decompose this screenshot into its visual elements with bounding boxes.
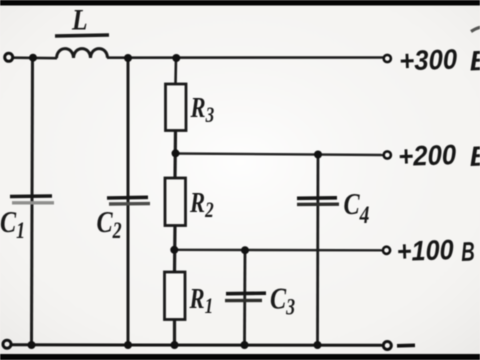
junction bottom C1 bbox=[28, 341, 36, 349]
terminal +300 bbox=[384, 55, 391, 62]
wire C3 branch vertical bbox=[243, 250, 246, 345]
resistor R3 bbox=[166, 84, 187, 131]
minus dash bbox=[397, 343, 415, 347]
terminal input left top bbox=[5, 53, 13, 61]
resistor R1 bbox=[165, 272, 186, 320]
junction +200 R chain bbox=[172, 149, 180, 157]
capacitor C4 bbox=[297, 196, 337, 200]
capacitor C1 bbox=[10, 194, 52, 198]
wire +100 rail bbox=[174, 249, 383, 252]
wire C2 branch vertical bbox=[127, 58, 130, 345]
junction bottom C2 bbox=[124, 341, 132, 349]
svg-text:В: В bbox=[469, 140, 480, 172]
wire resistor chain vertical bbox=[174, 58, 177, 84]
terminal +200 bbox=[384, 151, 391, 158]
svg-text:В: В bbox=[461, 237, 476, 267]
bottom letterbox bar bbox=[0, 354, 480, 360]
wire C4 branch vertical bbox=[316, 155, 319, 346]
junction top C1 bbox=[29, 54, 37, 62]
junction top R chain bbox=[172, 54, 180, 62]
wire bottom ground rail bbox=[11, 343, 382, 347]
wire top rail bbox=[13, 56, 57, 59]
svg-text:В: В bbox=[469, 45, 480, 77]
wire C1 branch vertical bbox=[32, 58, 33, 345]
junction bottom C3 bbox=[241, 341, 249, 349]
junction bottom C4 bbox=[314, 341, 322, 349]
svg-text:+200: +200 bbox=[398, 139, 457, 172]
svg-text:L: L bbox=[71, 4, 87, 37]
junction bottom R chain bbox=[171, 341, 179, 349]
terminal +100 bbox=[383, 247, 390, 254]
terminal minus bottom right bbox=[383, 342, 391, 350]
terminal left bottom bbox=[3, 340, 11, 348]
top letterbox bar bbox=[0, 0, 480, 6]
svg-text:+300: +300 bbox=[399, 43, 458, 76]
svg-text:+100: +100 bbox=[396, 234, 454, 267]
junction +100 C3 bbox=[241, 246, 249, 254]
inductor L bbox=[57, 49, 108, 59]
stray pen arc top right bbox=[471, 27, 480, 32]
wire +200 rail bbox=[175, 154, 383, 156]
junction +200 C4 bbox=[314, 151, 322, 159]
junction top C2 bbox=[124, 54, 132, 62]
junction +100 R chain bbox=[170, 246, 178, 254]
resistor R2 bbox=[165, 178, 186, 226]
capacitor C2 bbox=[107, 196, 148, 200]
capacitor C3 bbox=[226, 291, 266, 295]
underline of L bbox=[55, 35, 109, 36]
